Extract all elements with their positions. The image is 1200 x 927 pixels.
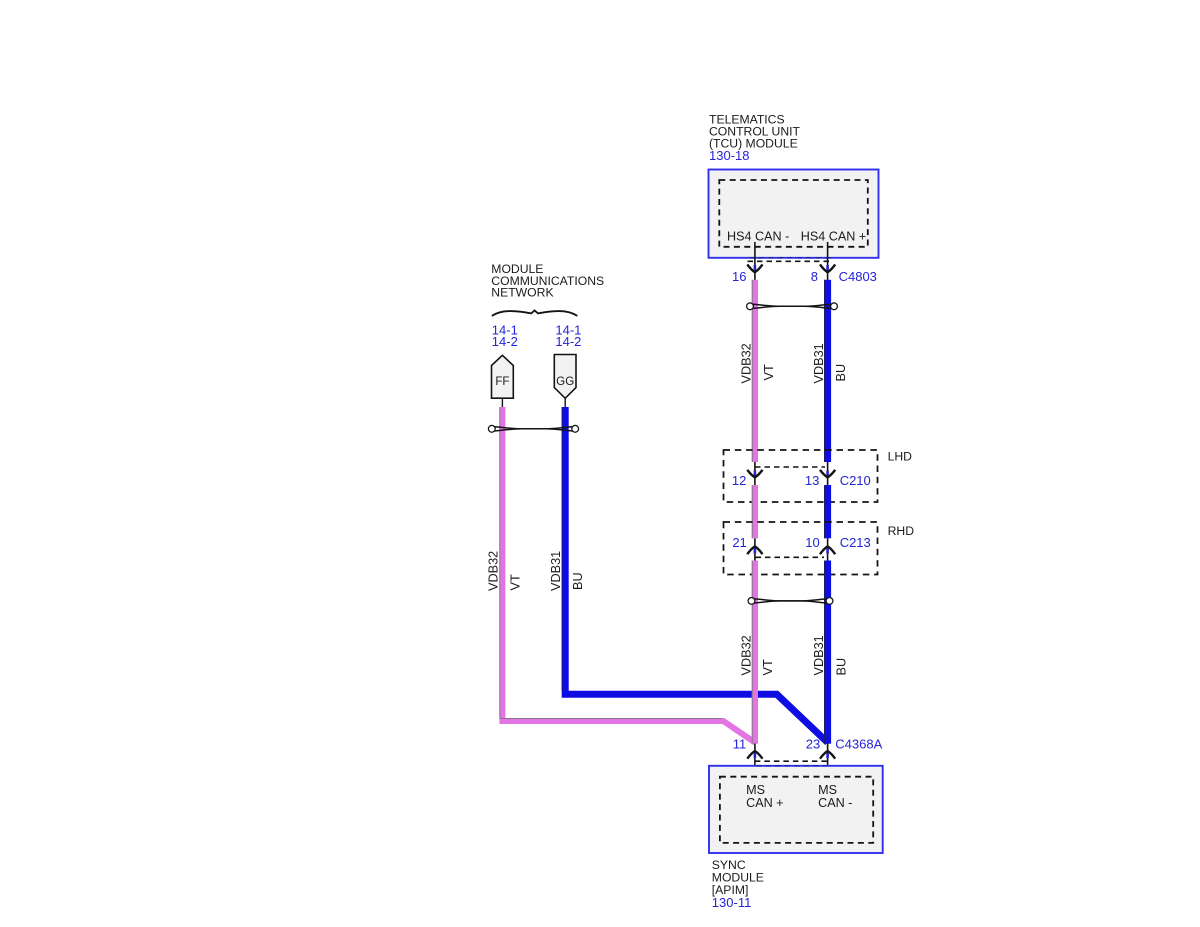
pin lead pin 8 (827, 242, 829, 280)
svg-text:VDB32: VDB32 (486, 551, 500, 591)
svg-text:GG: GG (556, 375, 574, 388)
connector C213 RHD dashed box (724, 522, 878, 575)
svg-text:CAN +: CAN + (746, 796, 783, 810)
svg-text:HS4 CAN -: HS4 CAN - (727, 229, 789, 243)
svg-text:12: 12 (732, 473, 746, 488)
svg-text:C4368A: C4368A (835, 737, 882, 752)
twisted pair symbol lower right (748, 598, 833, 605)
svg-text:HS4 CAN +: HS4 CAN + (801, 229, 866, 243)
pin label MS CAN + (746, 783, 783, 810)
svg-text:130-11: 130-11 (712, 895, 752, 910)
wire VDB32 VT right vertical lower segment (752, 561, 758, 744)
module label TCU title (709, 113, 801, 164)
pin lead pin 12 (754, 462, 756, 485)
svg-text:C210: C210 (840, 473, 871, 488)
svg-text:MS: MS (818, 783, 837, 797)
svg-text:14-2: 14-2 (492, 334, 518, 349)
pin lead below GG (564, 398, 566, 407)
module U1 TCU box (709, 170, 879, 258)
svg-text:MS: MS (746, 783, 765, 797)
pin lead below FF (501, 398, 503, 407)
svg-text:FF: FF (495, 375, 509, 388)
wire VDB31 segment between C210 and C213 (824, 485, 831, 538)
svg-text:10: 10 (805, 535, 819, 550)
connector C4368A dashed overlay on box edge (756, 765, 827, 767)
wire VDB31 BU right vertical lower segment (824, 561, 831, 744)
connector C4803 dashed overlay on box edge (749, 257, 831, 259)
svg-text:14-2: 14-2 (555, 334, 581, 349)
connector C4803 dashed line (748, 260, 833, 262)
wire VDB32 segment between C210 and C213 (752, 485, 758, 538)
svg-text:CAN -: CAN - (818, 796, 852, 810)
pin lead pin 21 (754, 538, 756, 560)
svg-text:RHD: RHD (888, 524, 915, 538)
connector C213 inner dashed line (756, 556, 825, 558)
pin lead pin 10 (827, 538, 829, 560)
connector internal dashed box of TCU (719, 180, 868, 247)
twisted pair symbol upper right (747, 303, 838, 310)
svg-text:LHD: LHD (888, 449, 913, 463)
svg-text:VDB31: VDB31 (812, 343, 826, 383)
svg-text:NETWORK: NETWORK (491, 286, 553, 300)
wire VDB31 BU left branch (562, 407, 828, 743)
module U2 SYNC box (709, 766, 883, 853)
svg-text:BU: BU (835, 658, 849, 676)
page reference 14-1 14-2 (right) (555, 322, 581, 349)
connector internal dashed box of SYNC (720, 777, 873, 843)
network label MODULE COMMUNICATIONS NETWORK (491, 262, 604, 300)
svg-text:21: 21 (732, 535, 746, 550)
svg-text:BU: BU (571, 572, 585, 590)
page reference 14-1 14-2 (left) (492, 322, 518, 349)
wire VDB32 VT left branch (500, 407, 755, 743)
svg-text:C4803: C4803 (839, 269, 877, 284)
arrow into pin 23 (820, 751, 835, 759)
arrow into pin 21 (747, 546, 762, 554)
off-page connector GG (554, 355, 576, 399)
svg-text:130-18: 130-18 (709, 148, 749, 163)
off-page connector FF (492, 355, 514, 398)
wire VDB31 BU right vertical upper segment (824, 280, 831, 462)
connector C210 inner dashed line (755, 466, 825, 468)
svg-text:11: 11 (733, 737, 747, 752)
arrow into pin 8 (820, 264, 835, 272)
pin lead pin 23 (827, 744, 829, 784)
svg-text:VDB31: VDB31 (812, 635, 826, 675)
svg-text:13: 13 (805, 473, 819, 488)
arrow into pin 11 (747, 751, 762, 759)
svg-text:VDB32: VDB32 (739, 343, 753, 383)
connector C210 LHD dashed box (724, 450, 878, 502)
pin lead pin 16 (754, 242, 756, 280)
svg-text:VT: VT (761, 659, 775, 675)
svg-text:C213: C213 (840, 535, 871, 550)
brace symbol (492, 310, 578, 316)
svg-text:VDB31: VDB31 (549, 551, 563, 591)
module label SYNC title (712, 858, 764, 910)
svg-text:16: 16 (732, 269, 746, 284)
svg-text:VT: VT (762, 364, 776, 380)
pin lead pin 11 (754, 744, 756, 784)
svg-text:VDB32: VDB32 (739, 635, 753, 675)
connector C4368A dashed line (755, 760, 828, 762)
svg-text:VT: VT (509, 574, 523, 590)
arrow into pin 16 (747, 264, 762, 272)
pin label MS CAN - (818, 783, 852, 810)
svg-text:BU: BU (834, 364, 848, 382)
pin lead pin 13 (827, 462, 829, 485)
wire VDB32 VT right vertical upper segment (752, 280, 758, 462)
arrow into pin 13 (820, 470, 835, 478)
twisted pair symbol left (488, 425, 578, 432)
svg-text:8: 8 (811, 269, 818, 284)
arrow into pin 12 (747, 470, 762, 478)
svg-text:23: 23 (806, 737, 820, 752)
arrow into pin 10 (820, 546, 835, 554)
